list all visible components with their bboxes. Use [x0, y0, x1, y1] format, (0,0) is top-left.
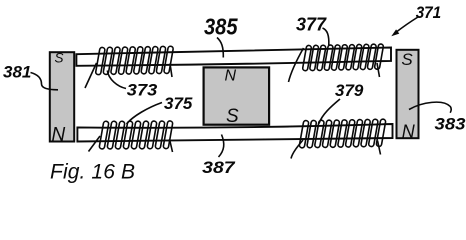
svg-text:387: 387 — [202, 158, 236, 177]
svg-text:N: N — [52, 125, 66, 146]
svg-text:S: S — [226, 106, 239, 127]
svg-text:383: 383 — [435, 115, 466, 134]
svg-text:381: 381 — [3, 62, 31, 81]
svg-text:379: 379 — [335, 81, 364, 100]
svg-text:S: S — [55, 50, 64, 65]
svg-text:S: S — [401, 50, 413, 69]
svg-text:377: 377 — [296, 14, 327, 34]
svg-text:371: 371 — [416, 3, 442, 22]
svg-text:385: 385 — [204, 14, 239, 40]
svg-text:373: 373 — [127, 81, 158, 100]
svg-text:375: 375 — [164, 94, 193, 113]
svg-text:N: N — [402, 121, 416, 141]
svg-text:N: N — [225, 67, 237, 84]
svg-text:Fig. 16 B: Fig. 16 B — [50, 160, 135, 183]
